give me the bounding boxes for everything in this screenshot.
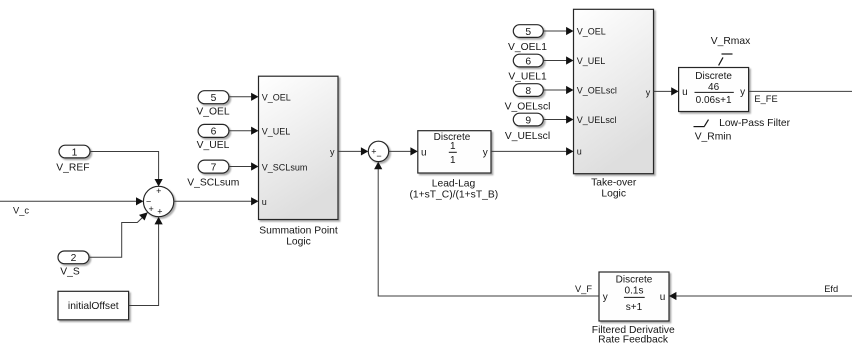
svg-text:s+1: s+1	[626, 302, 643, 313]
block Take-over Logic caption	[591, 177, 637, 199]
node E_FE label	[754, 94, 777, 104]
svg-text:+: +	[157, 207, 162, 217]
wire Summation y to sum S2	[338, 147, 368, 155]
block Lead-Lag	[418, 131, 491, 173]
svg-text:V_OEL: V_OEL	[196, 107, 229, 118]
node V_SCLsum label	[187, 177, 239, 188]
svg-text:u: u	[421, 147, 427, 158]
svg-text:V_UEL: V_UEL	[577, 56, 606, 66]
svg-text:0.06s+1: 0.06s+1	[696, 95, 732, 106]
input port 9	[513, 113, 543, 126]
block Summation Point Logic	[259, 76, 339, 219]
svg-text:8: 8	[525, 86, 531, 97]
svg-text:V_UELscl: V_UELscl	[505, 131, 550, 142]
svg-text:V_OELscl: V_OELscl	[577, 86, 617, 96]
wire sum S1 to Summation Point Logic u	[174, 197, 259, 205]
svg-text:6: 6	[525, 56, 531, 67]
svg-text:V_OELscl: V_OELscl	[505, 101, 551, 112]
sum junction S1	[143, 186, 173, 217]
svg-text:V_UEL: V_UEL	[197, 140, 230, 151]
svg-text:initialOffset: initialOffset	[68, 301, 119, 312]
wire Efd input	[669, 292, 852, 300]
svg-text:y: y	[740, 87, 745, 98]
svg-text:5: 5	[211, 93, 217, 104]
svg-text:u: u	[262, 197, 267, 207]
block Take-over Logic	[574, 9, 654, 173]
input port 1	[59, 145, 90, 158]
svg-text:5: 5	[525, 27, 531, 38]
svg-text:Discrete: Discrete	[616, 274, 653, 285]
wire port8 to Take-over	[543, 86, 573, 94]
wire Take-over y to Low-Pass u	[654, 87, 679, 95]
sum junction S2	[368, 141, 388, 161]
svg-text:V_c: V_c	[13, 206, 29, 216]
svg-text:6: 6	[211, 127, 217, 138]
node V_UEL1 label	[508, 72, 547, 83]
node V_UELscl label	[505, 131, 550, 142]
node V_Rmin label	[695, 132, 732, 143]
svg-text:V_UEL: V_UEL	[262, 127, 291, 137]
svg-text:u: u	[660, 292, 666, 303]
svg-text:u: u	[682, 87, 688, 98]
svg-text:Discrete: Discrete	[695, 71, 732, 82]
node V_F label	[575, 284, 592, 294]
svg-text:V_SCLsum: V_SCLsum	[262, 162, 308, 172]
wire port5 to block	[229, 93, 259, 101]
svg-text:Efd: Efd	[824, 284, 838, 294]
svg-text:1: 1	[450, 155, 456, 166]
wire V_S to sum	[89, 212, 148, 257]
svg-text:2: 2	[71, 253, 77, 264]
svg-text:Lead-Lag: Lead-Lag	[432, 179, 476, 190]
svg-text:−: −	[376, 151, 381, 161]
svg-text:9: 9	[525, 115, 531, 126]
svg-text:V_Rmin: V_Rmin	[695, 132, 732, 143]
svg-text:(1+sT_C)/(1+sT_B): (1+sT_C)/(1+sT_B)	[409, 190, 498, 201]
block Lead-Lag caption	[409, 179, 498, 201]
node V_S label	[60, 266, 80, 277]
svg-text:V_F: V_F	[575, 284, 592, 294]
svg-text:+: +	[148, 204, 153, 214]
svg-text:V_SCLsum: V_SCLsum	[187, 177, 239, 188]
svg-text:V_UEL1: V_UEL1	[508, 72, 547, 83]
svg-text:V_OEL: V_OEL	[577, 27, 606, 37]
wire sum S2 to Lead-Lag u	[389, 147, 418, 155]
svg-text:y: y	[603, 292, 608, 303]
svg-text:y: y	[646, 87, 651, 97]
svg-text:u: u	[577, 147, 582, 157]
node V_Rmax label	[711, 36, 751, 47]
svg-text:7: 7	[211, 162, 217, 173]
svg-text:1: 1	[72, 147, 78, 158]
node V_UEL label	[197, 140, 230, 151]
node V_OEL1 label	[508, 42, 547, 53]
wire port5b to Take-over	[543, 27, 573, 35]
svg-text:V_UELscl: V_UELscl	[577, 115, 617, 125]
svg-text:Rate Feedback: Rate Feedback	[598, 334, 669, 345]
node V_REF label	[56, 162, 89, 173]
input port 8	[513, 84, 543, 97]
svg-text:V_REF: V_REF	[56, 162, 89, 173]
wire feedback V_F to sum S2	[374, 162, 599, 296]
input port 6	[198, 124, 229, 137]
node V_OELscl label	[505, 101, 551, 112]
wire port6b to Take-over	[543, 56, 573, 64]
wire port6 to block	[229, 127, 259, 135]
block Low-Pass Filter	[679, 68, 749, 112]
wire Lead-Lag y to Take-over u	[491, 147, 574, 155]
block Low-Pass Filter caption	[719, 118, 791, 129]
node Efd label	[824, 284, 838, 294]
svg-text:+: +	[156, 186, 161, 196]
wire port7 to block	[229, 162, 259, 170]
svg-text:Logic: Logic	[601, 188, 626, 199]
wire V_c input line	[0, 197, 143, 205]
input port 2	[58, 251, 89, 264]
block Filtered Derivative caption	[592, 325, 675, 345]
svg-text:Summation Point: Summation Point	[259, 226, 338, 237]
input port 6 (Take-over)	[513, 54, 543, 67]
node V_c label	[13, 206, 29, 216]
input port 5 (Take-over)	[513, 25, 543, 38]
saturation upper-limit icon	[719, 54, 733, 65]
svg-text:1: 1	[450, 141, 456, 152]
input port 5	[198, 91, 229, 104]
svg-text:Take-over: Take-over	[591, 177, 637, 188]
block Filtered Derivative	[599, 272, 669, 321]
svg-text:V_Rmax: V_Rmax	[711, 36, 751, 47]
input port 7	[198, 160, 229, 173]
wire Low-Pass y output E_FE	[749, 90, 852, 92]
svg-text:V_OEL1: V_OEL1	[508, 42, 547, 53]
wire port9 to Take-over	[543, 115, 573, 123]
node V_OEL label	[196, 107, 229, 118]
block initialOffset	[58, 291, 129, 320]
wire V_REF to sum	[90, 152, 163, 187]
svg-text:0.1s: 0.1s	[625, 286, 644, 297]
svg-text:E_FE: E_FE	[754, 94, 777, 104]
svg-text:Logic: Logic	[286, 236, 311, 247]
wire initialOffset to sum	[129, 217, 163, 306]
svg-text:Low-Pass Filter: Low-Pass Filter	[719, 118, 791, 129]
svg-text:V_S: V_S	[60, 266, 80, 277]
svg-text:46: 46	[708, 82, 720, 93]
svg-text:y: y	[483, 147, 488, 158]
block Summation Point Logic caption	[259, 226, 338, 248]
saturation lower-limit icon	[694, 120, 709, 127]
svg-text:y: y	[330, 147, 335, 157]
svg-text:V_OEL: V_OEL	[262, 93, 291, 103]
